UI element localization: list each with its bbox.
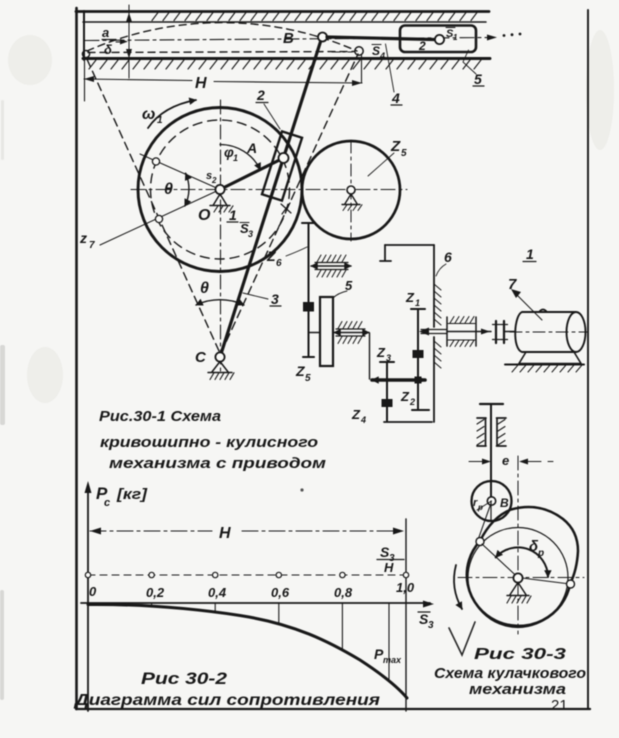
svg-text:1: 1 xyxy=(229,207,237,223)
svg-text:2: 2 xyxy=(211,176,217,185)
frame right border xyxy=(587,10,589,708)
dimension line a/delta vertical xyxy=(128,5,130,78)
svg-text:p: p xyxy=(537,548,544,559)
svg-text:6: 6 xyxy=(444,249,452,265)
cam follower rod xyxy=(490,404,492,501)
svg-text:0,2: 0,2 xyxy=(146,585,165,600)
gearbox housing right wall xyxy=(433,245,435,422)
resistance force curve xyxy=(88,604,407,698)
svg-text:3: 3 xyxy=(248,229,253,239)
radius line to lower dead point extended to z7 label xyxy=(100,190,220,246)
small arrow on centerline near labels xyxy=(116,41,124,43)
ground at O xyxy=(210,194,233,212)
svg-text:1: 1 xyxy=(415,298,420,308)
right extreme pin circle xyxy=(355,47,363,55)
svg-text:5: 5 xyxy=(305,373,311,384)
svg-text:21: 21 xyxy=(551,697,568,714)
motor shaft I double line xyxy=(421,330,447,334)
svg-text:S: S xyxy=(372,44,380,58)
svg-text:0,8: 0,8 xyxy=(334,585,353,600)
svg-text:4: 4 xyxy=(379,51,385,61)
shaft I arrow into Z1 xyxy=(419,328,429,336)
L connector to shaft II xyxy=(369,333,371,379)
gear z6 side view vertical line xyxy=(308,223,310,357)
gear z5 vertical centerline xyxy=(350,141,352,241)
cam base circle thick profile arc xyxy=(467,541,570,626)
left profile point circle xyxy=(476,538,484,546)
svg-text:Рис 30-2: Рис 30-2 xyxy=(141,670,227,688)
upper dead point pin xyxy=(152,158,159,165)
svg-text:2: 2 xyxy=(418,39,426,53)
top guide rail upper wall line xyxy=(76,10,489,13)
upper bearing shaft xyxy=(311,265,351,267)
H dimension line xyxy=(84,79,362,83)
svg-text:z: z xyxy=(79,230,87,246)
svg-text:Z: Z xyxy=(351,407,361,422)
svg-text:ω: ω xyxy=(142,106,155,123)
radius line to upper dead point xyxy=(140,154,220,190)
crank link 1 xyxy=(220,158,284,190)
svg-text:4: 4 xyxy=(360,415,366,425)
chart dashed scale line xyxy=(88,574,406,576)
dashed kulisa extreme position right xyxy=(221,54,358,353)
svg-text:Z: Z xyxy=(266,248,276,264)
dashed kulisa extreme position left xyxy=(86,57,219,351)
svg-text:0: 0 xyxy=(89,584,97,599)
gear Z4 side view xyxy=(386,407,388,421)
cam base circle thin construction xyxy=(468,528,568,628)
connecting rod link 4 xyxy=(327,37,434,40)
svg-text:1: 1 xyxy=(453,33,458,42)
svg-text:e: e xyxy=(502,453,509,468)
svg-text:0,6: 0,6 xyxy=(271,585,290,600)
svg-text:7: 7 xyxy=(89,240,95,251)
svg-text:3: 3 xyxy=(386,353,391,363)
svg-text:3: 3 xyxy=(271,291,279,307)
svg-text:H: H xyxy=(195,75,207,92)
chart y axis xyxy=(87,486,89,711)
svg-text:Z: Z xyxy=(405,290,415,305)
svg-text:механизма: механизма xyxy=(469,681,566,698)
mesh block Z3-Z4 xyxy=(382,399,393,407)
frame bottom border xyxy=(76,708,590,710)
motor top nub xyxy=(539,310,547,313)
gear Z2 side view xyxy=(417,358,419,410)
cam vertical centerline xyxy=(517,456,519,634)
cam horizontal centerline xyxy=(458,577,584,579)
svg-text:B: B xyxy=(500,496,509,510)
frame left border xyxy=(75,8,78,709)
theta arc at O xyxy=(185,173,189,206)
svg-text:Рис 30-3: Рис 30-3 xyxy=(474,646,567,663)
big gear wheel side view rectangle xyxy=(320,297,333,366)
svg-text:1,0: 1,0 xyxy=(396,580,415,595)
gearbox housing left wall xyxy=(380,245,391,261)
crank pin path dashed circle xyxy=(151,120,290,259)
slider pin xyxy=(435,35,444,44)
pin O xyxy=(215,185,224,194)
svg-text:A: A xyxy=(246,140,257,156)
chart H dimension line xyxy=(90,530,404,532)
follower guide left xyxy=(477,418,486,446)
chart x axis xyxy=(81,602,430,604)
svg-text:a: a xyxy=(102,25,109,40)
motor ground hatching xyxy=(512,365,582,372)
omega1 rotation arc arrow xyxy=(148,100,196,128)
motor 1 body xyxy=(515,312,576,352)
ground at gear z5 xyxy=(342,194,362,211)
svg-text:θ: θ xyxy=(164,181,173,198)
bottom guide rail wall line xyxy=(83,57,490,60)
follower axis through roller xyxy=(490,501,492,520)
svg-text:2: 2 xyxy=(256,87,265,103)
arrow up to top wall xyxy=(126,13,132,23)
motor ground line xyxy=(505,364,584,366)
shaft II crossing block xyxy=(415,377,422,384)
pencil dot xyxy=(300,488,303,491)
middle bearing shaft xyxy=(334,332,369,334)
centerline trailing dots xyxy=(503,33,522,37)
motor axis dash-dot xyxy=(510,331,587,333)
svg-text:c: c xyxy=(104,497,110,509)
svg-text:6: 6 xyxy=(276,258,282,269)
motor end cap ellipse xyxy=(567,312,586,352)
droplines xyxy=(152,603,389,679)
right pin extension line xyxy=(361,55,363,83)
radial line to right point xyxy=(518,578,566,584)
svg-text:1: 1 xyxy=(526,246,534,262)
lower dead point pin xyxy=(155,215,162,222)
svg-text:B: B xyxy=(283,30,294,47)
svg-text:O: O xyxy=(198,207,211,224)
follower guide right xyxy=(497,418,507,446)
slider 2 box xyxy=(400,26,476,53)
vertical dash-dot centerline through O and C xyxy=(220,100,222,371)
ground at cam center xyxy=(507,583,531,604)
svg-text:Z: Z xyxy=(376,345,386,360)
svg-text:max: max xyxy=(383,655,402,665)
dashed chord line xyxy=(88,52,354,53)
svg-text:Диаграмма сил сопротивления: Диаграмма сил сопротивления xyxy=(73,692,381,709)
scale tick circles xyxy=(85,572,408,577)
pin C xyxy=(215,352,224,361)
gear Z1 side view xyxy=(417,309,419,352)
right profile point circle xyxy=(567,580,575,588)
stub shaft to big gear wheel xyxy=(309,332,321,334)
housing wall hatching xyxy=(434,284,441,368)
bottom rail hatching xyxy=(89,60,481,69)
gearbox housing top xyxy=(385,244,434,246)
left extreme pin circle xyxy=(82,50,89,57)
kulisa link 3 xyxy=(220,37,322,357)
horizontal dash-dot centerline through O and gear z5 xyxy=(131,189,407,191)
left extension line below corner xyxy=(84,58,86,101)
svg-text:5: 5 xyxy=(401,148,407,159)
radial line to left point and roller xyxy=(479,506,518,578)
svg-text:[кг]: [кг] xyxy=(116,487,149,503)
svg-text:кривошипно - кулисного: кривошипно - кулисного xyxy=(100,434,318,451)
svg-text:C: C xyxy=(195,349,207,366)
left slot closure wall xyxy=(83,11,85,60)
svg-text:Рис.30-1 Схема: Рис.30-1 Схема xyxy=(99,408,221,425)
motor base xyxy=(519,352,581,364)
small arrow on shaft xyxy=(481,329,490,335)
theta arc at C xyxy=(196,300,244,305)
svg-text:0,4: 0,4 xyxy=(208,585,227,600)
svg-text:H: H xyxy=(384,560,394,575)
svg-text:Z: Z xyxy=(400,389,410,404)
mesh block Z1-Z2 xyxy=(413,350,424,358)
motor shaft bearing xyxy=(447,317,491,347)
svg-text:4: 4 xyxy=(391,90,400,106)
crank disc solid circle xyxy=(138,108,302,272)
roller pin xyxy=(487,497,495,505)
gear z5 pin xyxy=(347,186,355,194)
svg-text:θ: θ xyxy=(200,280,209,297)
cam center pin xyxy=(513,573,522,582)
S3 cross tick on dashed line xyxy=(281,203,291,214)
gear z6 hub block xyxy=(303,302,314,312)
svg-text:Z: Z xyxy=(295,363,305,379)
centerline arrow xyxy=(487,35,497,41)
pin A xyxy=(279,153,289,163)
sliding stone link 2 xyxy=(262,131,302,200)
svg-text:p: p xyxy=(477,503,483,512)
roller circle xyxy=(472,481,512,521)
svg-text:1: 1 xyxy=(233,153,238,163)
top rail hatching xyxy=(152,13,477,21)
ground at C xyxy=(208,362,234,380)
svg-text:механизма с приводом: механизма с приводом xyxy=(109,455,326,472)
shaft III bottom line xyxy=(384,421,432,423)
top guide rail second line xyxy=(83,21,486,23)
chart right boundary line xyxy=(405,519,407,711)
dash-dot left of right pin xyxy=(332,51,352,53)
phi1 arc xyxy=(220,145,260,170)
svg-text:2: 2 xyxy=(409,397,415,407)
gear Z3 side view xyxy=(386,362,388,400)
slot axis dash-dot centerline xyxy=(85,38,492,41)
gear z5 circle xyxy=(302,141,400,239)
roller radius line xyxy=(477,501,492,510)
cam lobe profile xyxy=(480,507,578,584)
dimension e xyxy=(469,461,553,463)
arrow down to bottom wall xyxy=(126,49,132,59)
coupling xyxy=(493,321,508,343)
upper bearing pads xyxy=(315,255,348,277)
svg-text:δ: δ xyxy=(104,42,112,57)
svg-text:Z: Z xyxy=(390,138,401,155)
shaft II thick bar xyxy=(372,378,425,382)
middle bearing pads xyxy=(336,322,365,344)
joint B pin xyxy=(318,33,327,42)
svg-text:1: 1 xyxy=(157,115,163,126)
paper tone blotches xyxy=(8,30,614,403)
svg-text:3: 3 xyxy=(428,620,434,631)
cam rotation arrow xyxy=(454,565,462,609)
delta p angle arc xyxy=(496,547,548,577)
svg-text:Схема кулачкового: Схема кулачкового xyxy=(434,665,586,682)
scanner smudges left edge xyxy=(0,100,5,700)
pencil checkmark xyxy=(449,622,475,655)
svg-text:H: H xyxy=(219,525,231,542)
dashed stroke arc of point B xyxy=(87,23,357,51)
